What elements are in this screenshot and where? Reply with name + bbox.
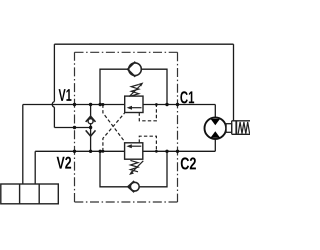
arrow inside top relief box	[127, 106, 142, 110]
arrow through bottom spring	[129, 161, 143, 175]
relief valve main box top (overcentre element V1-C1)	[125, 96, 143, 112]
node V1-shuttle	[89, 103, 92, 106]
shuttle valve ball	[88, 119, 93, 124]
spring top relief (adjustable)	[131, 85, 139, 96]
wire pilot internal top from C1	[139, 105, 156, 121]
wire pilot internal bottom from C2	[139, 136, 156, 151]
svg-text:V2: V2	[57, 153, 72, 173]
shuttle valve bottom seat	[86, 130, 96, 136]
wire C1 to motor top	[214, 105, 216, 118]
node V1-boundary	[73, 103, 76, 106]
arrow through top spring	[129, 82, 143, 96]
wire V1 line	[23, 104, 125, 106]
boundary left edge	[74, 52, 76, 202]
node C1-boundary	[176, 103, 179, 106]
wire C2 to motor bottom	[214, 139, 216, 151]
node V2-boundary	[73, 150, 76, 153]
wire V2 drop to valve	[34, 151, 36, 184]
arrow inside bottom relief box	[126, 144, 141, 148]
wire C1 line	[143, 104, 215, 106]
wire pilot tap V2	[103, 113, 125, 151]
brake housing	[232, 121, 251, 135]
wire brake pilot left drop lower	[53, 107, 55, 127]
svg-text:C1: C1	[180, 87, 195, 107]
motor M1 circle	[205, 117, 227, 139]
svg-text:C2: C2	[180, 153, 196, 173]
wire brake pilot right drop to brake	[233, 44, 235, 121]
wire V1 drop to valve	[22, 105, 24, 185]
motor shaft	[226, 124, 232, 133]
node C2-boundary	[176, 150, 179, 153]
pilot lines (dashed)	[103, 105, 156, 152]
svg-text:V1: V1	[59, 86, 72, 105]
wire crossover hop over V1 line	[52, 102, 54, 108]
node brake-shuttle	[89, 126, 92, 129]
spring bottom relief (adjustable)	[130, 160, 138, 171]
boundary top edge	[75, 51, 178, 53]
node C2-loop	[165, 150, 168, 153]
wire brake pilot top run	[54, 43, 233, 45]
node V2-shuttle	[89, 150, 92, 153]
node C1-loop	[165, 103, 168, 106]
boundary valve block (dash-dot)	[75, 52, 178, 202]
wire pilot tap V1	[103, 105, 125, 142]
check valve top bypass	[128, 62, 142, 77]
wire C2 line	[143, 150, 216, 152]
wire brake pilot left drop upper	[53, 44, 55, 101]
node C2-pilot	[155, 150, 158, 153]
wire bottom bypass loop	[100, 151, 167, 187]
junction dots	[73, 103, 179, 153]
relief valve main box bottom (overcentre element V2-C2)	[125, 143, 143, 159]
check valve bottom bypass	[128, 181, 139, 192]
motor bottom triangle	[211, 131, 221, 137]
node V1-loop/pilot	[99, 103, 102, 106]
wire top bypass loop	[100, 69, 167, 104]
shuttle valve top seat	[86, 116, 96, 122]
wire shuttle branch V1 to V2	[90, 105, 92, 152]
brake spring	[238, 122, 249, 134]
boundary right edge	[177, 52, 179, 202]
brake piston	[235, 121, 237, 135]
node brake-boundary	[73, 126, 76, 129]
node C1-pilot	[155, 103, 158, 106]
wire V2 line	[35, 150, 124, 152]
directional valve (3 position)	[1, 184, 59, 204]
wire brake pilot horizontal into block	[54, 127, 90, 129]
boundary bottom edge	[75, 201, 178, 203]
node V2-loop/pilot	[99, 150, 102, 153]
motor top triangle	[211, 119, 221, 126]
